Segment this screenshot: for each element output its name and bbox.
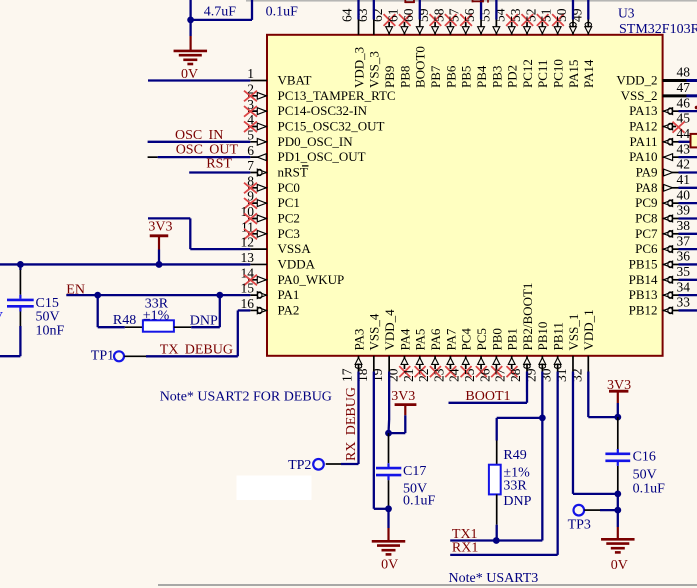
pin 17 PA3 (bottom) xyxy=(340,329,367,382)
white patch region xyxy=(237,476,312,501)
svg-text:55: 55 xyxy=(477,8,492,22)
svg-text:PB10: PB10 xyxy=(535,322,550,351)
svg-text:PC4: PC4 xyxy=(459,328,474,351)
pin 51 PC10 (top) xyxy=(539,9,566,89)
wire PB12 pin 33 to edge xyxy=(679,309,697,311)
pin 46 PA13 (right) xyxy=(629,95,690,118)
wire PB15 pin 36 to edge xyxy=(679,263,697,265)
wire 0V net to pin 1 VBAT xyxy=(148,79,250,81)
svg-text:PC3: PC3 xyxy=(278,226,300,241)
wire TP3 to junction xyxy=(584,509,600,511)
svg-text:0.1uF: 0.1uF xyxy=(403,494,436,509)
pin 34 PB13 (right) xyxy=(629,279,691,302)
svg-text:STM32F103R: STM32F103R xyxy=(619,22,697,37)
svg-text:16: 16 xyxy=(241,296,255,311)
svg-text:Note* USART3: Note* USART3 xyxy=(449,571,539,586)
svg-text:7: 7 xyxy=(247,158,254,173)
svg-text:VSS_2: VSS_2 xyxy=(621,88,658,103)
svg-text:15: 15 xyxy=(241,281,255,296)
pin 28 PB2/BOOT1 (bottom) xyxy=(508,283,535,382)
svg-text:51: 51 xyxy=(539,9,554,23)
svg-text:VSS_1: VSS_1 xyxy=(566,314,581,351)
ground symbol 0V (C16) xyxy=(617,510,619,527)
wire PB10/TX1 pin 29 down xyxy=(541,372,543,541)
junction VDD_1/C16/3V3 xyxy=(614,414,621,421)
svg-text:V: V xyxy=(0,310,3,325)
svg-text:PC9: PC9 xyxy=(635,195,657,210)
svg-text:0V: 0V xyxy=(611,558,628,573)
pin 16 PA2 (left) xyxy=(241,296,300,317)
svg-text:38: 38 xyxy=(677,218,691,233)
svg-text:53: 53 xyxy=(508,8,523,22)
junction VDD_4/C17/3V3 xyxy=(385,430,392,437)
wire PA14 pin 49 to top edge xyxy=(587,0,589,20)
wire PA9 pin 42 to edge xyxy=(679,171,697,173)
svg-text:PC11: PC11 xyxy=(535,60,550,88)
capacitor C15 xyxy=(19,264,21,270)
svg-text:63: 63 xyxy=(355,8,370,22)
svg-text:13: 13 xyxy=(241,250,255,265)
pin 31 VSS_1 (bottom) xyxy=(554,314,581,382)
wire PB14 pin 35 to edge xyxy=(679,279,697,281)
svg-text:RX1: RX1 xyxy=(452,541,478,556)
ground symbol 0V top xyxy=(189,20,191,36)
pin 27 PB1 (bottom) xyxy=(493,328,520,382)
pin 13 VDDA (left) xyxy=(241,250,316,271)
wire VDD_1 pin 32 down xyxy=(587,372,589,418)
svg-text:56: 56 xyxy=(462,8,477,22)
svg-text:0.1uF: 0.1uF xyxy=(633,481,666,496)
svg-text:12: 12 xyxy=(241,235,255,250)
svg-text:VDD_4: VDD_4 xyxy=(382,309,397,351)
pin 54 PD2 (top) xyxy=(493,8,520,88)
svg-text:VDD_2: VDD_2 xyxy=(616,73,657,88)
pin 49 PA14 (top) xyxy=(569,8,596,88)
svg-text:PA8: PA8 xyxy=(636,180,658,195)
pin 45 PA12 (right) xyxy=(629,111,690,134)
pin 25 PC5 (bottom) xyxy=(462,328,489,382)
pin 7 nRST (left) xyxy=(247,158,308,179)
pin 35 PB14 (right) xyxy=(629,264,691,287)
svg-text:49: 49 xyxy=(569,8,584,22)
svg-text:18: 18 xyxy=(355,368,370,382)
wire PA10 pin 43 to edge xyxy=(679,156,697,158)
svg-text:VSSA: VSSA xyxy=(278,241,312,256)
wire PA13 pin 46 to edge xyxy=(679,110,697,112)
pin 2 PC13_TAMPER_RTC (left) xyxy=(244,81,396,102)
svg-text:PC2: PC2 xyxy=(278,210,300,225)
svg-text:1: 1 xyxy=(247,66,254,81)
svg-text:21: 21 xyxy=(401,369,416,383)
svg-text:TP3: TP3 xyxy=(568,517,591,532)
svg-text:PC14-OSC32-IN: PC14-OSC32-IN xyxy=(278,103,368,118)
pin 18 VSS_4 (bottom) xyxy=(355,313,382,382)
svg-text:52: 52 xyxy=(523,9,538,23)
op IC U3 STM32F103R body xyxy=(267,35,663,356)
svg-text:PB14: PB14 xyxy=(629,272,658,287)
svg-text:10nF: 10nF xyxy=(36,324,65,339)
pin 3 PC14-OSC32-IN (left) xyxy=(244,97,368,118)
wire VSSA pin 12 S-bend xyxy=(148,217,190,219)
svg-text:VDD_1: VDD_1 xyxy=(581,309,596,350)
svg-text:34: 34 xyxy=(677,279,691,294)
test point TP3 xyxy=(574,505,585,516)
svg-text:43: 43 xyxy=(677,141,691,156)
svg-text:PA14: PA14 xyxy=(581,59,596,88)
wire PB13 pin 34 to edge xyxy=(679,294,697,296)
svg-text:PC6: PC6 xyxy=(635,241,658,256)
pin 50 PA15 (top) xyxy=(554,8,581,88)
svg-text:TP2: TP2 xyxy=(288,458,311,473)
svg-text:OSC OUT: OSC OUT xyxy=(176,143,239,158)
svg-text:DNP: DNP xyxy=(503,494,531,509)
pin 53 PC12 (top) xyxy=(508,8,535,88)
svg-text:RX DEBUG: RX DEBUG xyxy=(344,387,359,461)
svg-text:44: 44 xyxy=(677,126,691,141)
svg-text:PA10: PA10 xyxy=(629,149,657,164)
wire horizontal 4.7uF to 0.1uF xyxy=(191,19,252,21)
svg-text:PA6: PA6 xyxy=(428,328,443,350)
svg-text:50V: 50V xyxy=(633,467,657,482)
svg-text:40: 40 xyxy=(677,187,691,202)
junction EN left xyxy=(94,292,101,299)
svg-text:OSC IN: OSC IN xyxy=(175,128,223,143)
svg-text:C17: C17 xyxy=(403,464,426,479)
clipped fragment right edge near pin 46 xyxy=(695,106,697,110)
svg-text:32: 32 xyxy=(569,369,584,383)
svg-text:54: 54 xyxy=(493,8,508,22)
svg-text:PC5: PC5 xyxy=(474,328,489,350)
svg-text:26: 26 xyxy=(477,368,492,382)
pin 48 VDD_2 (right) xyxy=(616,65,690,88)
svg-text:TX DEBUG: TX DEBUG xyxy=(160,342,233,357)
wire PA11 pin 44 to edge xyxy=(679,141,697,143)
junction EN right xyxy=(216,292,223,299)
svg-text:48: 48 xyxy=(677,65,691,80)
svg-text:PB9: PB9 xyxy=(382,66,397,88)
svg-text:C16: C16 xyxy=(633,450,656,465)
svg-text:PB7: PB7 xyxy=(428,65,443,88)
pin 41 PA8 (right) xyxy=(636,172,690,195)
svg-text:33: 33 xyxy=(677,295,691,310)
wire PB3 pin 55 to top edge xyxy=(495,0,497,20)
pin 60 BOOT0 (top) xyxy=(401,8,428,88)
svg-text:EN: EN xyxy=(66,282,85,297)
svg-text:37: 37 xyxy=(677,233,691,248)
clipped fragment top C xyxy=(487,0,489,3)
svg-text:24: 24 xyxy=(447,368,462,382)
svg-text:47: 47 xyxy=(677,80,691,95)
pin 9 PC1 (left) xyxy=(244,189,300,210)
junction at 4.7uF xyxy=(187,17,194,24)
pin 62 PB9 (top) xyxy=(370,9,397,89)
svg-text:VSS_4: VSS_4 xyxy=(367,313,382,350)
svg-text:19: 19 xyxy=(370,368,385,382)
svg-text:3V3: 3V3 xyxy=(391,389,415,404)
wire EN net to pin 15 xyxy=(66,294,250,296)
svg-text:PA7: PA7 xyxy=(443,328,458,350)
capacitor C17 xyxy=(388,433,390,463)
junction C15/VDDA xyxy=(17,261,24,268)
pin 23 PA7 (bottom) xyxy=(431,328,458,382)
wire VSS_3 pin 63 to top edge xyxy=(373,0,375,20)
svg-text:61: 61 xyxy=(385,9,400,23)
svg-text:36: 36 xyxy=(677,249,691,264)
svg-text:PA0_WKUP: PA0_WKUP xyxy=(278,272,345,287)
pin 10 PC2 (left) xyxy=(241,204,300,225)
svg-text:PC1: PC1 xyxy=(278,195,300,210)
svg-text:60: 60 xyxy=(401,8,416,22)
svg-text:±1%: ±1% xyxy=(143,308,170,323)
svg-text:VBAT: VBAT xyxy=(278,73,312,88)
pin 44 PA11 (right) xyxy=(630,126,691,149)
svg-text:TP1: TP1 xyxy=(91,349,114,364)
pin 52 PC11 (top) xyxy=(523,9,550,89)
resistor R48 xyxy=(97,295,99,327)
svg-text:28: 28 xyxy=(508,368,523,382)
svg-text:31: 31 xyxy=(554,369,569,383)
pin 24 PC4 (bottom) xyxy=(447,328,474,382)
svg-text:R49: R49 xyxy=(503,448,526,463)
svg-text:35: 35 xyxy=(677,264,691,279)
svg-text:4.7uF: 4.7uF xyxy=(204,4,237,19)
svg-text:62: 62 xyxy=(370,9,385,23)
svg-text:PB0: PB0 xyxy=(489,328,504,350)
svg-text:58: 58 xyxy=(431,8,446,22)
svg-text:64: 64 xyxy=(340,8,355,22)
wire BOOT1 to pin 28 xyxy=(526,372,528,403)
wire vertical to top 4.7uF cap xyxy=(189,0,191,20)
svg-text:17: 17 xyxy=(340,368,355,382)
pin 12 VSSA (left) xyxy=(241,235,312,256)
svg-text:3V3: 3V3 xyxy=(148,220,172,235)
svg-text:57: 57 xyxy=(447,8,462,22)
pin 56 PB4 (top) xyxy=(462,8,489,88)
wire PC9 pin 40 to edge xyxy=(679,202,697,204)
wire BOOT0 pin 60 to top edge xyxy=(419,0,421,20)
wire VSS_2 pin 47 to edge xyxy=(687,94,697,97)
svg-text:PA12: PA12 xyxy=(629,118,657,133)
svg-text:PA11: PA11 xyxy=(630,134,658,149)
svg-text:PA9: PA9 xyxy=(636,164,658,179)
svg-text:nRST: nRST xyxy=(278,164,308,179)
pin 43 PA10 (right) xyxy=(629,141,690,164)
wire C16 bottom to TP3/ground xyxy=(617,494,619,510)
test point TP1 xyxy=(114,351,124,361)
sheet edge line bottom xyxy=(158,584,697,586)
pin 47 VSS_2 (right) xyxy=(621,80,691,103)
wire PA8 pin 41 to edge xyxy=(679,187,697,189)
wire OSC_IN to pin 5 xyxy=(148,141,251,143)
svg-text:PA5: PA5 xyxy=(413,329,428,351)
junction C16 bottom / VSS_1 xyxy=(614,491,621,498)
svg-text:PB5: PB5 xyxy=(459,66,474,88)
svg-text:RST: RST xyxy=(206,156,232,171)
wire PC7 pin 38 to edge xyxy=(679,233,697,235)
svg-text:23: 23 xyxy=(431,368,446,382)
svg-text:U3: U3 xyxy=(618,6,635,21)
svg-text:PC13_TAMPER_RTC: PC13_TAMPER_RTC xyxy=(278,88,396,103)
svg-text:5: 5 xyxy=(247,127,254,142)
svg-text:33R: 33R xyxy=(503,478,527,493)
pin 30 PB11 (bottom) xyxy=(539,322,566,382)
svg-text:PD1_OSC_OUT: PD1_OSC_OUT xyxy=(278,149,366,164)
svg-text:50V: 50V xyxy=(36,310,60,325)
resistor R49 xyxy=(497,417,543,419)
svg-text:PA1: PA1 xyxy=(278,287,300,302)
capacitor C16 xyxy=(617,417,619,449)
wire PB4 pin 56 to top edge xyxy=(480,0,482,20)
svg-text:VDDA: VDDA xyxy=(278,256,316,271)
pin 59 PB7 (top) xyxy=(416,8,443,88)
junction 3V3/VDDA xyxy=(156,261,163,268)
pin 42 PA9 (right) xyxy=(636,157,690,180)
svg-text:39: 39 xyxy=(677,203,691,218)
wire TX1 net xyxy=(450,539,542,541)
svg-text:PC8: PC8 xyxy=(635,210,657,225)
svg-text:BOOT1: BOOT1 xyxy=(465,389,510,404)
svg-text:0V: 0V xyxy=(181,67,198,82)
pin 20 PA4 (bottom) xyxy=(385,328,412,382)
svg-text:PD2: PD2 xyxy=(505,65,520,88)
pin 55 PB3 (top) xyxy=(477,8,504,88)
svg-text:0.1uF: 0.1uF xyxy=(266,4,299,19)
wire RX1 net pin 30 xyxy=(557,372,559,555)
svg-text:59: 59 xyxy=(416,8,431,22)
svg-text:VDD_3: VDD_3 xyxy=(351,47,366,88)
svg-text:DNP: DNP xyxy=(190,314,218,329)
pin 8 PC0 (left) xyxy=(244,173,300,194)
pin 1 VBAT (left) xyxy=(247,66,311,87)
wire VDDA net long horizontal to pin 13 xyxy=(0,263,250,265)
pin 38 PC7 (right) xyxy=(635,218,690,241)
svg-text:30: 30 xyxy=(539,368,554,382)
svg-text:0V: 0V xyxy=(381,557,398,572)
pin 14 PA0_WKUP (left) xyxy=(241,265,345,286)
pin 33 PB12 (right) xyxy=(629,295,691,318)
wire RX_DEBUG pin 17 down to TP2 xyxy=(357,372,359,465)
pin 15 PA1 (left) xyxy=(241,281,300,302)
pin 61 PB8 (top) xyxy=(385,9,412,89)
svg-text:42: 42 xyxy=(677,157,691,172)
pin 40 PC9 (right) xyxy=(635,187,690,210)
pin 5 PD0_OSC_IN (left) xyxy=(247,127,353,148)
svg-text:Note* USART2 FOR DEBUG: Note* USART2 FOR DEBUG xyxy=(160,389,332,404)
clipped component at right edge (pin 44) xyxy=(691,134,697,148)
svg-text:PB8: PB8 xyxy=(397,66,412,88)
wire RST to pin 7 xyxy=(189,171,250,173)
svg-text:20: 20 xyxy=(385,368,400,382)
pin 19 VDD_4 (bottom) xyxy=(370,309,397,382)
pin 6 PD1_OSC_OUT (left) xyxy=(247,143,365,164)
wire PC6 pin 37 to edge xyxy=(679,248,697,250)
wire VSS_1 pin 31 down xyxy=(572,372,574,494)
svg-text:BOOT0: BOOT0 xyxy=(413,46,428,88)
svg-text:PC12: PC12 xyxy=(520,59,535,88)
wire vertical 0.1uF going up xyxy=(251,0,253,20)
pin 11 PC3 (left) xyxy=(241,219,300,240)
svg-text:PB4: PB4 xyxy=(474,65,489,88)
wire VDD_3 pin 64 to top edge xyxy=(357,0,359,20)
svg-text:PB2/BOOT1: PB2/BOOT1 xyxy=(520,283,535,351)
sheet edge line top xyxy=(246,0,697,2)
svg-text:PA4: PA4 xyxy=(397,328,412,350)
pin 57 PB5 (top) xyxy=(447,8,474,88)
svg-text:25: 25 xyxy=(462,368,477,382)
svg-text:PA3: PA3 xyxy=(351,329,366,351)
junction PB10/R49 top xyxy=(539,415,546,422)
clipped component fragment top A xyxy=(405,0,415,3)
pin 32 VDD_1 (bottom) xyxy=(569,309,596,382)
wire PA15 pin 50 to top edge xyxy=(572,0,574,20)
svg-text:PB3: PB3 xyxy=(489,66,504,88)
svg-text:46: 46 xyxy=(677,95,691,110)
wire OSC_OUT to pin 6 xyxy=(148,156,158,158)
pin 37 PC6 (right) xyxy=(635,233,690,256)
pin 36 PB15 (right) xyxy=(629,249,691,272)
svg-text:PB15: PB15 xyxy=(629,256,658,271)
pin 63 VSS_3 (top) xyxy=(355,8,382,88)
test point TP2 xyxy=(313,459,324,470)
svg-text:PB11: PB11 xyxy=(551,322,566,350)
junction R49 bottom / TX1 xyxy=(493,537,500,544)
svg-text:PA15: PA15 xyxy=(566,60,581,88)
wire VDD_4 pin 19 down xyxy=(388,372,390,421)
svg-text:PB13: PB13 xyxy=(629,287,658,302)
wire VSS_4 pin 18 down to ground xyxy=(373,372,375,509)
svg-text:PA13: PA13 xyxy=(629,103,657,118)
svg-text:PB12: PB12 xyxy=(629,302,658,317)
pin 4 PC15_OSC32_OUT (left) xyxy=(244,112,384,133)
svg-text:27: 27 xyxy=(493,368,508,382)
svg-text:PC10: PC10 xyxy=(551,59,566,88)
svg-text:PA2: PA2 xyxy=(278,302,300,317)
wire TX_DEBUG from TP1 to pin 16 xyxy=(124,355,146,357)
svg-text:PB1: PB1 xyxy=(505,328,520,350)
pin 64 VDD_3 (top) xyxy=(340,8,367,88)
svg-text:VSS_3: VSS_3 xyxy=(367,51,382,88)
wire VDD_2 pin 48 to edge xyxy=(687,79,697,82)
svg-text:29: 29 xyxy=(523,368,538,382)
junction C17 bottom xyxy=(385,505,392,512)
svg-text:PC15_OSC32_OUT: PC15_OSC32_OUT xyxy=(278,118,385,133)
svg-text:R48: R48 xyxy=(113,313,136,328)
svg-text:50: 50 xyxy=(554,8,569,22)
svg-text:22: 22 xyxy=(416,369,431,383)
pin 22 PA6 (bottom) xyxy=(416,328,443,382)
pin 29 PB10 (bottom) xyxy=(523,322,550,382)
svg-text:6: 6 xyxy=(247,143,254,158)
svg-text:PB6: PB6 xyxy=(443,65,458,88)
pin 39 PC8 (right) xyxy=(635,203,690,226)
pin 26 PB0 (bottom) xyxy=(477,328,504,382)
svg-text:PC0: PC0 xyxy=(278,180,300,195)
pin 21 PA5 (bottom) xyxy=(401,329,428,382)
clipped component fragment top B xyxy=(472,0,484,2)
svg-text:PC7: PC7 xyxy=(635,226,658,241)
ground symbol 0V (C17) xyxy=(387,509,389,528)
junction TP3 xyxy=(614,507,621,514)
svg-text:PD0_OSC_IN: PD0_OSC_IN xyxy=(278,134,354,149)
wire PC8 pin 39 to edge xyxy=(679,217,697,219)
svg-text:41: 41 xyxy=(677,172,691,187)
pin 58 PB6 (top) xyxy=(431,8,458,88)
